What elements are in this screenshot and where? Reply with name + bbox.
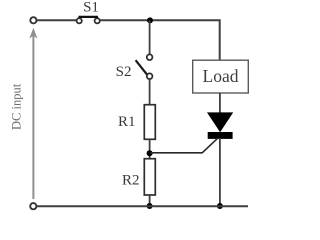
switch S1 contact circle right bbox=[95, 18, 100, 23]
wire: R2 to bottom rail bbox=[149, 195, 151, 206]
switch S2 open blade bbox=[136, 60, 147, 74]
thyristor D1 anode triangle bbox=[208, 113, 232, 131]
wire: load bottom to thyristor anode bbox=[219, 93, 221, 114]
resistor R2 bbox=[144, 159, 155, 195]
resistor R1 bbox=[144, 105, 155, 140]
wire: bottom rail bbox=[36, 205, 248, 207]
wire: gate lead from R1-R2 junction to thyristor bbox=[150, 138, 218, 153]
svg-text:R1: R1 bbox=[118, 114, 136, 130]
load box U1 bbox=[193, 60, 249, 93]
polarity arrow (DC input direction) bbox=[32, 33, 34, 199]
switch S1 contact circle left bbox=[77, 18, 82, 23]
wire: R1 to R2 through junction bbox=[149, 139, 151, 159]
node: junction dot bottom rail left bbox=[147, 203, 153, 209]
terminal: DC input positive bbox=[30, 17, 36, 23]
wire: top rail from S1 to load corner bbox=[100, 20, 220, 60]
svg-text:R2: R2 bbox=[122, 173, 140, 189]
wire: top rail from left terminal to S1 bbox=[37, 19, 78, 21]
svg-text:S2: S2 bbox=[116, 64, 132, 80]
thyristor D1 cathode bar bbox=[208, 132, 233, 139]
node: junction dot between R1 and R2 (gate tap) bbox=[147, 150, 153, 156]
svg-text:DC input: DC input bbox=[9, 83, 23, 130]
node: junction dot bottom rail right bbox=[217, 203, 223, 209]
wire: S2 to R1 bbox=[149, 79, 151, 105]
wire: thyristor cathode to bottom rail bbox=[219, 138, 221, 206]
node: junction dot top rail bbox=[147, 17, 153, 23]
wire: junction down to S2 bbox=[149, 20, 151, 54]
switch S2 contact circle top bbox=[147, 54, 153, 60]
terminal: DC input negative bbox=[30, 203, 36, 209]
switch S2 contact circle bottom bbox=[147, 73, 153, 79]
svg-text:S1: S1 bbox=[83, 0, 99, 16]
svg-text:Load: Load bbox=[203, 66, 239, 86]
switch S1 closed blade bar bbox=[79, 16, 99, 18]
